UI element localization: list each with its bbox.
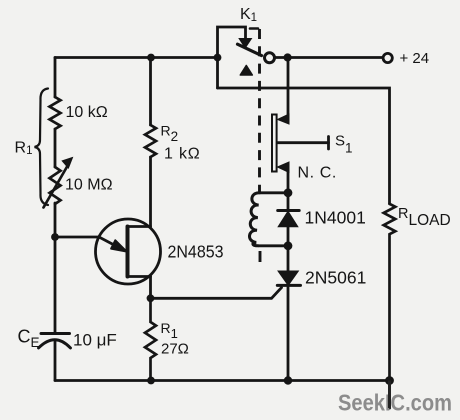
wire gate horizontal — [151, 288, 282, 299]
wire left vertical upper — [54, 58, 57, 98]
resistor R2 1k — [145, 125, 156, 157]
relay armature arm — [238, 44, 262, 55]
svg-text:R1: R1 — [161, 320, 178, 341]
svg-text:10 MΩ: 10 MΩ — [65, 177, 113, 194]
S1 blade bar — [272, 115, 277, 172]
node bottom R1 — [147, 377, 155, 385]
wire left vertical middle — [54, 203, 57, 334]
node coil top — [284, 188, 293, 197]
brace for R1 — [35, 89, 49, 206]
svg-text:S1: S1 — [335, 133, 353, 156]
transistor base bar — [126, 227, 130, 277]
relay armature arrowhead — [239, 39, 251, 48]
svg-text:27Ω: 27Ω — [161, 341, 189, 358]
transistor emitter arrowhead — [111, 240, 126, 251]
svg-text:CE: CE — [18, 327, 40, 351]
wire stub over watermark — [388, 381, 391, 409]
svg-text:N. C.: N. C. — [298, 165, 337, 182]
wire contact to +24 — [275, 56, 383, 59]
svg-text:1 kΩ: 1 kΩ — [164, 146, 201, 163]
diode 1N4001 wire lower — [287, 227, 290, 246]
relay contact left edge — [218, 27, 246, 88]
wire lower contact down — [287, 172, 290, 193]
svg-text:R1: R1 — [15, 140, 33, 158]
SCR 2N5061 anode wire — [287, 246, 290, 272]
node contact right — [284, 53, 292, 61]
capacitor CE top plate — [41, 332, 70, 335]
transistor emitter wire — [55, 237, 117, 247]
S1 actuator tick — [327, 137, 330, 150]
wire R2 branch upper — [149, 58, 152, 126]
resistor R LOAD — [384, 204, 396, 381]
relay NC fixed contact circle — [265, 53, 275, 63]
svg-text:RLOAD: RLOAD — [398, 206, 451, 229]
svg-text:10 μF: 10 μF — [73, 331, 117, 350]
S1 actuator line — [278, 141, 329, 144]
wire left vertical lower — [54, 342, 57, 381]
SCR cathode wire down — [287, 285, 290, 380]
potentiometer 10 MOhm — [50, 167, 61, 204]
node bottom load — [385, 376, 394, 385]
wire R2 to base2 — [149, 157, 152, 227]
S1 upper contact arrowhead — [278, 114, 290, 124]
wire between resistors — [54, 129, 57, 167]
SCR 2N5061 cathode bar — [277, 284, 300, 287]
diode 1N4001 cathode bar — [278, 209, 300, 212]
transistor base1 lead — [128, 275, 151, 278]
wire middle column from top junction down to S1 — [287, 58, 290, 116]
relay bottom edge wire to load — [218, 88, 390, 204]
svg-text:2N5061: 2N5061 — [305, 268, 366, 288]
wire base1 down — [149, 277, 152, 299]
svg-text:10 kΩ: 10 kΩ — [66, 104, 108, 121]
svg-text:+ 24: + 24 — [400, 50, 430, 67]
wire top-left horizontal — [55, 56, 218, 59]
relay NO fixed contact triangle — [240, 66, 252, 76]
diode 1N4001 triangle — [279, 212, 298, 227]
resistor 10 kOhm — [50, 97, 61, 129]
relay coil K1 — [259, 191, 288, 194]
svg-text:K1: K1 — [240, 6, 257, 24]
node base1 — [147, 294, 155, 302]
node R2 top — [147, 54, 155, 62]
svg-text:2N4853: 2N4853 — [168, 242, 224, 262]
wire bottom horizontal — [55, 379, 390, 382]
mechanical link dashed line — [250, 27, 258, 30]
svg-text:SeekIC.com: SeekIC.com — [338, 390, 452, 416]
SCR 2N5061 triangle — [279, 271, 298, 285]
terminal +24 circle — [383, 53, 392, 62]
ground stub — [388, 381, 391, 409]
svg-text:1N4001: 1N4001 — [305, 208, 366, 228]
resistor R1 27 ohm — [145, 298, 156, 380]
potentiometer arrow — [44, 165, 69, 208]
node relay left — [214, 54, 222, 62]
transistor Q1 2N4853 circle — [96, 219, 161, 284]
svg-text:R2: R2 — [161, 123, 179, 145]
capacitor CE bottom plate — [39, 340, 71, 348]
node coil bottom — [284, 241, 293, 250]
S1 lower contact arrowhead — [278, 162, 290, 173]
transistor base2 lead — [128, 225, 151, 228]
diode 1N4001 wire upper — [287, 193, 290, 210]
node bottom SCR — [284, 376, 292, 384]
node emitter — [51, 233, 59, 241]
